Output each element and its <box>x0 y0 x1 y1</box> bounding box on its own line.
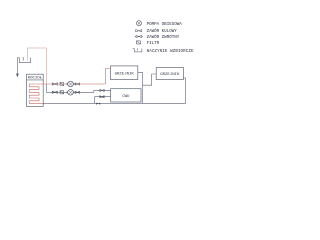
pump on run1 <box>68 81 74 87</box>
boiler label divider <box>27 79 44 81</box>
filter on run1 <box>60 82 64 85</box>
radiator 1 GRZEJNIK box <box>111 66 138 80</box>
wire branch to radiator 2 <box>143 74 157 85</box>
svg-text:ZAWÓR KULOWY: ZAWÓR KULOWY <box>147 29 178 34</box>
svg-text:KOCIOŁ: KOCIOŁ <box>28 77 43 81</box>
ball valve on CWU upper inlet <box>100 89 104 91</box>
wire tee from supply down to CWU loop <box>45 84 47 92</box>
legend <box>133 21 143 52</box>
overflow pipe with down arrow <box>17 58 19 74</box>
pump on run2 <box>68 90 74 96</box>
wire radiator 2 outlet down to return <box>183 78 185 103</box>
check valve on run2 <box>52 91 57 93</box>
boiler KOCIOL box <box>27 74 44 106</box>
filter on run2 <box>60 91 64 94</box>
svg-text:ZAWÓR ZWROTNY: ZAWÓR ZWROTNY <box>147 35 180 40</box>
svg-text:POMPA OBIEGOWA: POMPA OBIEGOWA <box>147 23 183 27</box>
svg-text:GRZEJNIK: GRZEJNIK <box>115 72 135 76</box>
radiator 1 connector to drop <box>138 72 143 103</box>
check valve node on return line <box>96 103 100 105</box>
legend expansion vessel icon <box>133 48 142 52</box>
wire CWU loop run 2 <box>46 90 110 92</box>
legend check valve icon <box>135 35 143 37</box>
svg-text:GRZEJNIK: GRZEJNIK <box>160 73 180 77</box>
radiator 2 GRZEJNIK box <box>156 68 183 80</box>
wire return main line <box>43 102 185 104</box>
ball valve on run2 <box>75 91 79 93</box>
legend filter icon <box>136 41 140 44</box>
check valve on run1 <box>52 83 57 85</box>
expansion vessel (naczynie wzbiorcze) <box>19 57 30 63</box>
expansion pipe (red) from supply up to vessel <box>28 48 47 84</box>
wire return tee up to CWU lower inlet <box>95 97 111 104</box>
ball valve on run1 <box>75 83 79 85</box>
svg-text:FILTR: FILTR <box>147 42 160 46</box>
svg-text:NACZYNIE WZBIORCZE: NACZYNIE WZBIORCZE <box>147 50 194 54</box>
ball valve on CWU lower inlet <box>100 96 104 98</box>
legend ball valve icon <box>136 30 142 32</box>
overflow arrowhead <box>16 74 19 78</box>
legend pump icon <box>137 21 142 26</box>
boiler heating coil (red serpentine) <box>29 84 43 103</box>
svg-text:CWU: CWU <box>122 95 130 99</box>
wire supply run 1 (red) boiler to riser <box>43 83 105 85</box>
CWU tank box <box>111 89 141 102</box>
wire supply riser to radiator 1 (red) <box>105 69 110 85</box>
